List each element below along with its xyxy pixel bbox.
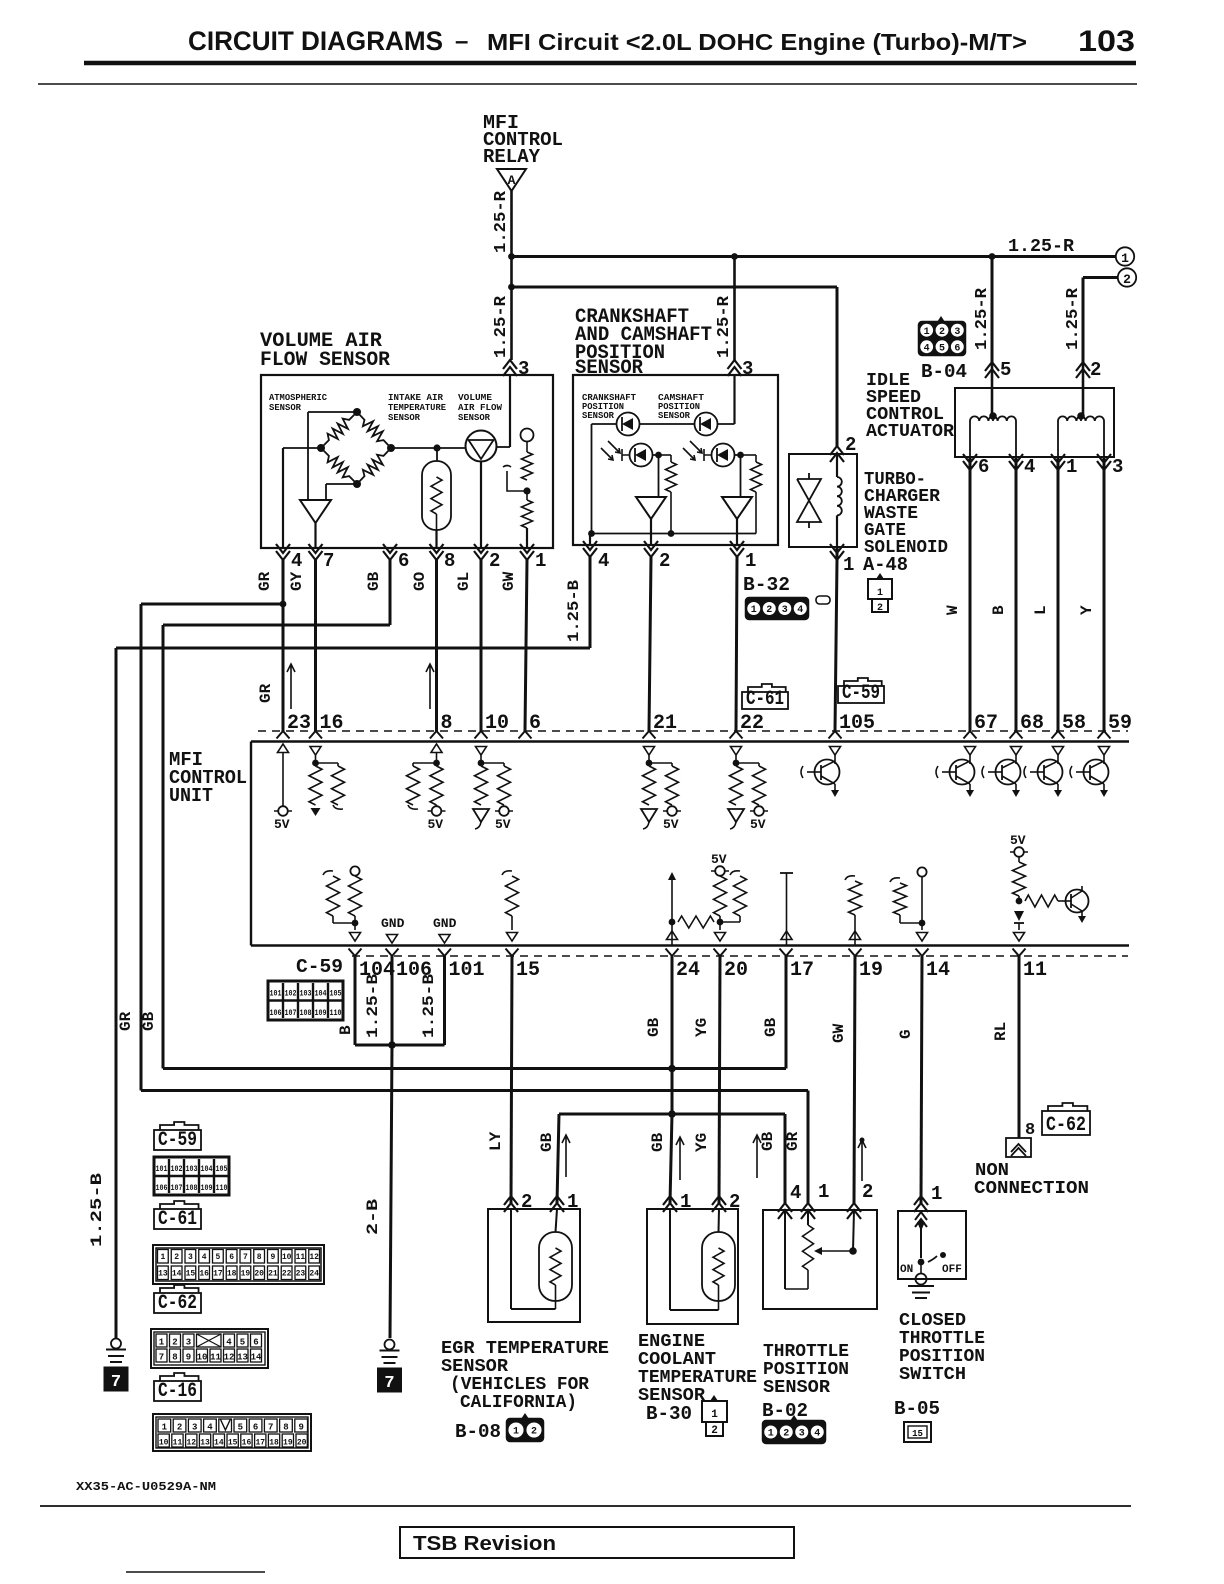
svg-text:2: 2 (766, 605, 772, 616)
crank output amp (658, 455, 660, 497)
svg-text:102: 102 (285, 989, 297, 999)
svg-text:9: 9 (298, 1423, 303, 1433)
node flow divider (523, 487, 530, 494)
svg-text:2: 2 (939, 327, 945, 338)
svg-text:10: 10 (282, 1253, 292, 1262)
svg-text:SWITCH: SWITCH (899, 1365, 966, 1385)
svg-text:1: 1 (924, 327, 930, 338)
svg-text:1: 1 (1066, 456, 1077, 478)
connector C-16 icon left (153, 1414, 311, 1451)
throttle pin 4 arrow (778, 1203, 792, 1219)
bridge node right (387, 444, 395, 452)
MFI pin 104 (349, 949, 362, 957)
relay connector triangle A (497, 169, 526, 191)
svg-text:G: G (897, 1029, 915, 1039)
svg-text:109: 109 (201, 1183, 213, 1193)
EGR pin 2 arrow (504, 1196, 518, 1212)
svg-text:2: 2 (174, 1253, 179, 1262)
svg-text:Y: Y (1078, 605, 1096, 615)
svg-text:2: 2 (845, 434, 856, 456)
cam photo diode (712, 444, 735, 467)
svg-text:7: 7 (323, 550, 334, 572)
wire GB bus up to MFI17 (785, 956, 788, 1069)
svg-text:15: 15 (912, 1429, 923, 1439)
MFI 21 internal resistors (644, 747, 655, 756)
ISC pin 6 (963, 454, 977, 470)
crank sensor pin 2 (644, 541, 658, 557)
svg-text:22: 22 (282, 1270, 292, 1279)
MFI 14 internal (890, 878, 900, 882)
MFI pin 20 (714, 949, 727, 957)
MFI box top edge (251, 740, 1129, 742)
svg-text:GB: GB (645, 1017, 663, 1037)
VAFS box (261, 375, 553, 548)
node bus1 isc feed (989, 253, 996, 260)
svg-text:10: 10 (159, 1439, 169, 1448)
svg-text:2-B: 2-B (364, 1199, 382, 1235)
svg-text:1.25-R: 1.25-R (1064, 287, 1083, 350)
svg-text:C-59: C-59 (158, 1129, 197, 1152)
wire right node to vafs symbol (391, 447, 466, 449)
svg-text:12: 12 (224, 1353, 235, 1363)
atmospheric amp triangle (300, 500, 331, 523)
boxed label C-62 right (1048, 1103, 1087, 1111)
node bus1 left (508, 253, 515, 260)
MFI 59 output transistor (1099, 747, 1110, 756)
svg-text:14: 14 (214, 1439, 224, 1448)
node bus1 crank feed (731, 253, 738, 260)
svg-text:5: 5 (939, 343, 945, 354)
svg-text:23: 23 (296, 1270, 306, 1279)
svg-text:1: 1 (751, 605, 757, 616)
bridge resistor top-left (321, 412, 357, 448)
svg-text:2: 2 (1090, 359, 1101, 381)
svg-text:8: 8 (172, 1353, 177, 1363)
svg-text:CLOSED: CLOSED (899, 1311, 966, 1331)
svg-text:C-59: C-59 (296, 956, 343, 978)
svg-text:SENSOR: SENSOR (658, 410, 690, 421)
svg-text:1: 1 (745, 550, 756, 572)
svg-text:105: 105 (330, 989, 342, 999)
MFI 22 internal resistors (731, 747, 742, 756)
svg-text:OFF: OFF (942, 1264, 962, 1276)
flow potentiometer top circle (521, 429, 534, 442)
wire isc right drop (1082, 278, 1085, 363)
svg-text:1: 1 (931, 1183, 942, 1205)
connector B-02 icon (790, 1415, 798, 1421)
svg-text:11: 11 (210, 1353, 221, 1363)
bridge resistor bottom-right (357, 448, 391, 484)
svg-text:8: 8 (257, 1253, 262, 1262)
MFI pin 23 (277, 731, 290, 739)
MFI 11 internal (1010, 851, 1028, 853)
connector C-59 icon left (154, 1157, 229, 1195)
svg-text:SENSOR: SENSOR (269, 402, 301, 413)
ground bars right (380, 1350, 400, 1352)
throttle pin 1 arrow (801, 1203, 815, 1219)
svg-text:2: 2 (783, 1429, 789, 1440)
svg-text:5V: 5V (750, 817, 766, 832)
wire MFI14 to cts1 (921, 956, 922, 1203)
svg-text:3: 3 (954, 327, 960, 338)
closed throttle pin 1 arrow (914, 1196, 928, 1212)
svg-text:5V: 5V (663, 817, 679, 832)
boxed label C-61 (748, 684, 786, 692)
svg-text:5: 5 (238, 1423, 243, 1433)
MFI 15 internal resistor (502, 871, 512, 875)
svg-text:3: 3 (192, 1423, 197, 1433)
connector C-59 label left (160, 1122, 199, 1130)
throttle potentiometer (807, 1210, 809, 1225)
MFI pin 16 (309, 731, 322, 739)
svg-text:4: 4 (202, 1253, 207, 1262)
cam sensor pin 1 (730, 541, 744, 557)
wire cam led to crank led (640, 423, 695, 425)
connector B-05 icon (904, 1422, 931, 1442)
svg-text:GB: GB (762, 1017, 780, 1037)
svg-text:6: 6 (253, 1338, 258, 1348)
circled terminal 2 (1118, 268, 1136, 286)
arrow 2 into turbo solenoid (830, 446, 844, 462)
crank photo diode (630, 444, 653, 467)
wire ISC 3 to MFI 59 (1103, 458, 1106, 731)
svg-text:9: 9 (186, 1353, 191, 1363)
svg-text:19: 19 (241, 1270, 251, 1279)
cam load resistor (741, 454, 757, 456)
svg-text:GB: GB (140, 1011, 158, 1031)
svg-text:1: 1 (711, 1409, 718, 1421)
svg-text:11: 11 (296, 1253, 306, 1262)
arrow GB cts (676, 1137, 684, 1180)
wire GW vafs1 to MFI6 (525, 560, 527, 731)
svg-text:1.25-B: 1.25-B (565, 580, 583, 642)
wire left node to pin 4 (283, 447, 321, 449)
svg-text:3: 3 (742, 358, 753, 380)
MFI pin 22 (730, 731, 743, 739)
svg-text:15: 15 (516, 959, 540, 982)
flow wiper contact (503, 466, 525, 492)
svg-text:POSITION: POSITION (763, 1360, 849, 1380)
EGR temperature sensor box (488, 1209, 580, 1322)
svg-text:17: 17 (255, 1439, 265, 1448)
MFI pin 24 (666, 949, 679, 957)
svg-text:1.25-R: 1.25-R (492, 190, 511, 253)
svg-text:68: 68 (1020, 712, 1044, 735)
svg-text:2: 2 (172, 1338, 177, 1348)
svg-text:5: 5 (215, 1253, 220, 1262)
wire crank led to left rail (592, 423, 617, 425)
svg-text:TSB Revision: TSB Revision (413, 1533, 556, 1555)
svg-text:GO: GO (411, 571, 429, 591)
MFI 19 internal resistor (845, 876, 855, 880)
svg-text:106: 106 (156, 1183, 168, 1193)
ISC pin 4 (1009, 454, 1023, 470)
svg-text:1: 1 (159, 1338, 165, 1348)
svg-text:B: B (337, 1025, 355, 1035)
svg-text:12: 12 (309, 1253, 319, 1262)
svg-text:7: 7 (268, 1423, 273, 1433)
svg-text:C-61: C-61 (158, 1208, 197, 1231)
bridge node bottom (353, 480, 361, 488)
svg-text:1: 1 (843, 554, 854, 576)
connector C-62 icon left (151, 1329, 268, 1368)
svg-text:1: 1 (818, 1181, 829, 1203)
svg-text:YG: YG (693, 1133, 711, 1152)
MFI 67 output transistor (965, 747, 976, 756)
TSB Revision box (400, 1527, 794, 1558)
node ISC coil left feed (991, 362, 994, 415)
svg-text:SENSOR: SENSOR (458, 412, 490, 423)
svg-text:SENSOR: SENSOR (441, 1357, 508, 1377)
svg-text:3: 3 (782, 605, 788, 616)
svg-text:RELAY: RELAY (483, 146, 541, 168)
svg-text:10: 10 (197, 1353, 208, 1363)
VAFS pin 2 (474, 544, 488, 560)
wire thermistor to pin 8 (435, 530, 437, 548)
svg-text:GW: GW (500, 571, 518, 591)
svg-text:6: 6 (253, 1423, 258, 1433)
svg-text:LY: LY (487, 1131, 505, 1151)
svg-text:B-30: B-30 (646, 1403, 692, 1425)
MFI pin 58 (1052, 731, 1065, 739)
non connection box (1006, 1138, 1031, 1157)
svg-text:6: 6 (954, 343, 960, 354)
svg-text:6: 6 (229, 1253, 234, 1262)
node ground merge (388, 1041, 396, 1049)
svg-text:GND: GND (433, 916, 457, 931)
svg-text:SENSOR: SENSOR (388, 412, 420, 423)
coolant thermistor (702, 1232, 735, 1301)
svg-text:10: 10 (485, 712, 509, 735)
svg-text:ACTUATOR: ACTUATOR (866, 422, 954, 442)
svg-text:SENSOR: SENSOR (582, 410, 614, 421)
MFI pin 11 (1013, 949, 1026, 957)
wire crank amp to pin 2 (650, 519, 652, 545)
svg-text:17: 17 (213, 1270, 223, 1279)
ground box 7 left (104, 1367, 128, 1391)
wire bus2 (512, 286, 838, 289)
wire GO vafs8 to MFI8 (435, 560, 438, 731)
svg-text:4: 4 (797, 605, 803, 616)
MFI 104 internal resistors (323, 871, 333, 875)
wire GY vafs7 to MFI16 (314, 560, 317, 731)
bridge node top (353, 408, 361, 416)
throttle pin 2 arrow (847, 1203, 861, 1219)
svg-text:GR: GR (256, 571, 274, 591)
svg-text:16: 16 (242, 1439, 252, 1448)
svg-text:A-48: A-48 (863, 554, 908, 576)
MFI pin 105 (829, 731, 842, 739)
svg-text:5: 5 (240, 1338, 245, 1348)
svg-text:(VEHICLES FOR: (VEHICLES FOR (450, 1375, 589, 1395)
wire amp to pin 7 (314, 523, 316, 548)
svg-text:101: 101 (270, 989, 282, 999)
connector C-16 label left (160, 1373, 199, 1381)
MFI 24 internal (668, 872, 676, 880)
MFI pin 6 (519, 731, 532, 739)
ISC pin 1 (1051, 454, 1065, 470)
svg-text:A: A (508, 173, 516, 188)
svg-text:104: 104 (315, 989, 327, 999)
bridge resistor bottom-left (321, 448, 357, 484)
svg-text:2: 2 (659, 550, 670, 572)
cam LED diode (695, 413, 718, 436)
svg-text:C-59: C-59 (842, 682, 880, 705)
wire ground merge bar (355, 1044, 445, 1047)
svg-text:2: 2 (531, 1427, 537, 1438)
crank load resistor (659, 454, 672, 456)
svg-text:CALIFORNIA): CALIFORNIA) (460, 1393, 577, 1413)
throttle wiper (818, 1250, 853, 1252)
wire relay to bus (510, 191, 513, 287)
svg-text:GND: GND (381, 916, 405, 931)
svg-text:18: 18 (227, 1270, 237, 1279)
arrow 5 into ISC (985, 362, 999, 378)
svg-text:8: 8 (444, 550, 455, 572)
svg-text:GB: GB (365, 571, 383, 591)
svg-text:B-32: B-32 (743, 574, 790, 596)
svg-text:107: 107 (171, 1183, 183, 1193)
ISC coil right (1058, 416, 1104, 421)
svg-text:GW: GW (830, 1023, 848, 1043)
svg-text:W: W (944, 605, 962, 615)
svg-text:110: 110 (216, 1183, 228, 1193)
MFI pin 59 (1098, 731, 1111, 739)
svg-text:1: 1 (535, 550, 546, 572)
wire GL vafs2 to MFI10 (480, 560, 483, 731)
turbo valve symbol (797, 473, 821, 528)
svg-text:2: 2 (177, 1423, 182, 1433)
svg-text:108: 108 (186, 1183, 198, 1193)
wire to terminal 2 (1083, 276, 1118, 279)
MFI 17 internal (780, 872, 793, 874)
crank LED diode (617, 413, 640, 436)
coolant pin 1 arrow (663, 1196, 677, 1212)
svg-text:103: 103 (1078, 25, 1135, 58)
MFI pin 14 (916, 949, 929, 957)
cam light arrows (683, 441, 702, 460)
MFI box left edge (250, 742, 252, 946)
wire MFI19 to throttle2 (854, 956, 855, 1203)
svg-text:B-05: B-05 (894, 1398, 940, 1420)
svg-text:11: 11 (173, 1439, 183, 1448)
intake air temp thermistor (422, 461, 451, 530)
svg-text:14: 14 (172, 1270, 182, 1279)
cam output amp (740, 455, 742, 497)
svg-text:21: 21 (653, 712, 677, 735)
svg-text:16: 16 (320, 712, 344, 735)
wire GR bus left (280, 601, 287, 608)
boxed label C-59 top (844, 678, 882, 686)
svg-text:6: 6 (978, 456, 989, 478)
svg-text:5V: 5V (495, 817, 511, 832)
svg-text:GB: GB (538, 1132, 556, 1152)
wire GR vafs4 to MFI23 (282, 560, 285, 731)
connector A-48 icon (876, 573, 884, 579)
ground circle left (111, 1339, 121, 1349)
svg-text:COOLANT: COOLANT (638, 1350, 716, 1370)
svg-text:1: 1 (768, 1429, 774, 1440)
svg-text:7: 7 (111, 1373, 121, 1392)
svg-text:3: 3 (186, 1338, 191, 1348)
svg-text:16: 16 (199, 1270, 209, 1279)
wire MFI15 to EGR2 (511, 956, 512, 1203)
MFI pin 67 (964, 731, 977, 739)
svg-text:4: 4 (1024, 456, 1035, 478)
MFI 8 internal resistors (431, 744, 442, 753)
svg-text:1.25-B: 1.25-B (88, 1172, 106, 1247)
svg-text:19: 19 (859, 959, 883, 982)
svg-text:13: 13 (237, 1353, 248, 1363)
MFI 20 internal resistors (711, 870, 729, 872)
svg-text:21: 21 (268, 1270, 278, 1279)
EGR thermistor return wire (510, 1209, 512, 1309)
svg-text:2: 2 (1123, 272, 1131, 287)
engine coolant temp sensor box (647, 1209, 738, 1324)
MFI pin 101 (438, 949, 451, 957)
svg-text:1.25-R: 1.25-R (492, 295, 511, 358)
svg-text:4: 4 (598, 550, 609, 572)
node GB bus pin24 (668, 1065, 676, 1073)
closed throttle position switch box (898, 1211, 966, 1279)
MFI 10 internal resistors (476, 747, 487, 756)
svg-text:102: 102 (171, 1164, 183, 1174)
svg-text:104: 104 (201, 1164, 213, 1174)
svg-text:105: 105 (216, 1164, 228, 1174)
MFI top dashed pin line (258, 730, 1128, 732)
svg-text:2: 2 (711, 1425, 718, 1437)
sensor ground bus (592, 533, 757, 535)
svg-text:4: 4 (291, 550, 302, 572)
bridge node left (317, 444, 325, 452)
svg-text:THROTTLE: THROTTLE (763, 1342, 849, 1362)
svg-text:4: 4 (790, 1182, 801, 1204)
svg-text:108: 108 (300, 1008, 312, 1018)
VAFS pin 7 (309, 544, 323, 560)
svg-text:103: 103 (186, 1164, 198, 1174)
ISC actuator box (955, 388, 1114, 457)
MFI pin 68 (1010, 731, 1023, 739)
arrow GO repeat (426, 664, 434, 709)
wire MFI24 down (671, 956, 674, 1114)
ground circle right (385, 1340, 395, 1350)
svg-text:4: 4 (226, 1338, 232, 1348)
VAFS pin 6 (383, 544, 397, 560)
connector C-62 label left (160, 1285, 199, 1293)
svg-text:105: 105 (839, 712, 875, 735)
closed throttle switch (915, 1212, 927, 1227)
wire 1.25-B left route (116, 647, 590, 650)
svg-text:ON: ON (900, 1264, 913, 1276)
footer small line (126, 1571, 265, 1573)
C-59 mfi connector icon (268, 981, 343, 1020)
MFI box bottom edge (251, 944, 1129, 946)
svg-text:GB: GB (759, 1131, 777, 1151)
wire MFI104 down (354, 956, 357, 1045)
svg-text:14: 14 (926, 959, 950, 982)
svg-text:20: 20 (724, 959, 748, 982)
arrow 3 into crank sensor (728, 360, 742, 376)
svg-text:7: 7 (243, 1253, 248, 1262)
svg-text:3: 3 (188, 1253, 193, 1262)
VAFS pin 1 (520, 544, 534, 560)
wire bottom node to amp input (326, 483, 357, 485)
svg-text:ENGINE: ENGINE (638, 1332, 705, 1352)
MFI pin 106 (386, 949, 399, 957)
crank sensor pin 4 (583, 541, 597, 557)
wire left rail to pin 4 (589, 534, 591, 546)
svg-text:4: 4 (814, 1429, 820, 1440)
